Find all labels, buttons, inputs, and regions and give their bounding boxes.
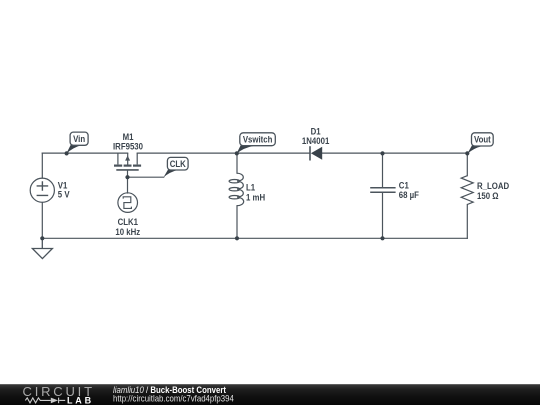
node dot Vswitch xyxy=(235,151,239,155)
capacitor C1 xyxy=(370,188,395,193)
node dot Vin xyxy=(65,151,69,155)
node dot L1 bottom xyxy=(235,236,239,240)
wire gate junction down to CLK1 xyxy=(127,177,129,193)
svg-text:1N4001: 1N4001 xyxy=(302,136,330,147)
svg-text:CLK: CLK xyxy=(170,158,186,169)
node dot C1 top xyxy=(380,151,384,155)
wire R_LOAD bottom xyxy=(466,205,468,239)
mosfet M1 IRF9530 xyxy=(114,153,141,170)
wire L1 top xyxy=(236,153,238,173)
svg-text:Vin: Vin xyxy=(73,134,85,145)
node dot Vout corner xyxy=(465,151,469,155)
label M1 IRF9530 xyxy=(113,131,143,152)
wire gate junction to CLK flag xyxy=(128,176,164,178)
logo resistor zigzag and diode xyxy=(25,398,65,404)
wire M1 gate to junction xyxy=(127,170,129,177)
svg-text:150 Ω: 150 Ω xyxy=(477,190,499,201)
wire C1 bottom xyxy=(382,193,384,239)
ground xyxy=(32,238,52,258)
svg-text:68 µF: 68 µF xyxy=(399,190,419,201)
clock source CLK1 xyxy=(118,193,138,213)
inductor L1 xyxy=(229,173,244,206)
svg-text:http://circuitlab.com/c7vfad4p: http://circuitlab.com/c7vfad4pfp394 xyxy=(113,393,234,404)
diode D1 1N4001 xyxy=(310,146,322,160)
label V1 value 5 V xyxy=(58,180,70,199)
svg-text:Vout: Vout xyxy=(474,134,491,145)
node dot ground xyxy=(40,236,44,240)
wire bottom rail xyxy=(42,237,467,239)
label R_LOAD 150 ohm xyxy=(477,181,509,201)
wire top rail right (D1 anode to Vout corner) xyxy=(322,152,467,154)
label L1 1 mH xyxy=(246,182,265,202)
wire top rail middle (M1 drain to D1 cathode) xyxy=(137,152,310,154)
net flag Vout xyxy=(467,133,493,154)
net flag CLK xyxy=(163,157,188,177)
svg-text:10 kHz: 10 kHz xyxy=(115,226,140,237)
wire R_LOAD top xyxy=(466,153,468,176)
svg-text:IRF9530: IRF9530 xyxy=(113,141,143,152)
net flag Vswitch xyxy=(236,133,275,154)
wire L1 bottom xyxy=(236,206,238,239)
svg-text:Vswitch: Vswitch xyxy=(243,134,273,145)
node dot gate junction xyxy=(125,175,129,179)
net flag Vin xyxy=(66,132,88,154)
svg-text:5 V: 5 V xyxy=(58,189,70,200)
label CLK1 10 kHz xyxy=(115,217,140,237)
wire C1 top xyxy=(382,153,384,187)
wire V1 top xyxy=(41,153,43,178)
svg-text:1 mH: 1 mH xyxy=(246,192,265,203)
svg-text:LAB: LAB xyxy=(67,395,94,405)
wire top rail left (Vin to M1 source) xyxy=(42,152,127,154)
label C1 68 uF xyxy=(399,180,419,200)
voltage source V1 xyxy=(30,178,54,202)
label D1 1N4001 xyxy=(302,126,330,146)
node dot C1 bottom xyxy=(380,236,384,240)
resistor R_LOAD xyxy=(461,176,473,205)
wire V1 bottom xyxy=(41,202,43,238)
